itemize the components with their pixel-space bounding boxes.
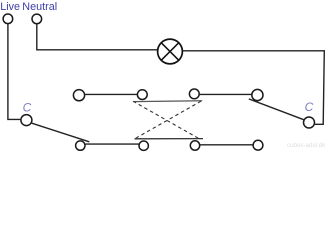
terminal intermediate bottom-left [139, 141, 148, 150]
terminal intermediate top-right [189, 89, 199, 99]
svg-text:Neutral: Neutral [22, 1, 57, 13]
svg-text:cubus-adsl.dk: cubus-adsl.dk [287, 142, 326, 149]
svg-text:C: C [23, 101, 32, 115]
wire intermediate top-right to right switch L1 [199, 93, 251, 95]
terminal C left switch [21, 115, 32, 126]
wire intermediate bottom-right to right switch L2 [200, 144, 253, 146]
wire Neutral to lamp [37, 24, 158, 50]
terminal intermediate top-left [137, 90, 147, 100]
lamp L1 circle [158, 39, 183, 64]
terminal L1 left switch [73, 90, 84, 101]
svg-text:Live: Live [0, 1, 20, 13]
terminal C right switch [304, 117, 315, 128]
lamp L1 cross [161, 43, 178, 60]
wire L2 left switch to intermediate bottom-left [86, 143, 139, 145]
terminal L1 right switch [252, 89, 263, 100]
blade right switch L1 to C [249, 99, 304, 120]
intermediate straight link top [134, 100, 203, 103]
intermediate straight link bottom [135, 138, 204, 140]
terminal L2 right switch [253, 140, 263, 150]
terminal L2 left switch [76, 141, 85, 150]
terminal Live [3, 14, 13, 24]
svg-text:C: C [305, 100, 314, 114]
terminal intermediate bottom-right [190, 141, 199, 150]
terminal Neutral [32, 14, 42, 24]
blade left switch C to L2 [32, 123, 90, 142]
wire Live to left switch common [8, 24, 21, 120]
intermediate crossed link dashed 1 [133, 101, 199, 138]
wire L1 left switch to intermediate top-left [85, 93, 138, 95]
intermediate crossed link dashed 2 [135, 101, 201, 138]
wire lamp to right switch common [183, 51, 325, 125]
